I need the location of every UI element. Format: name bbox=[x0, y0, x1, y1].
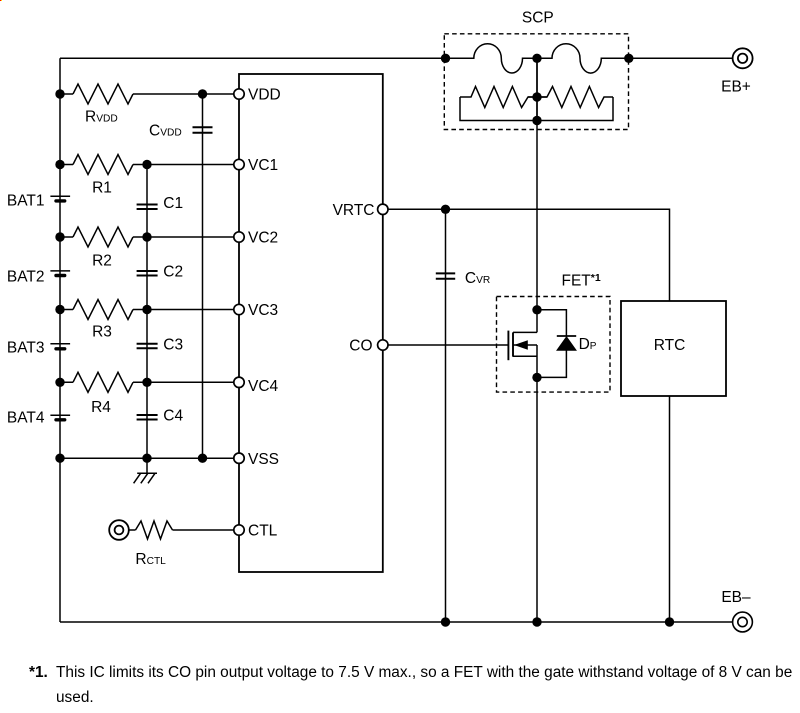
svg-text:CTL: CTL bbox=[248, 523, 278, 540]
wire CVDD column bbox=[202, 94, 204, 458]
wire SCP fuse center tap to heater bbox=[536, 58, 538, 120]
wire CVR column from VRTC to EB- rail bbox=[445, 209, 447, 622]
junction node RTC/EB- rail bbox=[665, 617, 674, 626]
wire RCTL to CTL pin bbox=[129, 529, 239, 531]
diode DP symbol bbox=[557, 336, 576, 350]
svg-text:VDD: VDD bbox=[248, 87, 281, 104]
wire VRTC net to RTC block bbox=[383, 209, 670, 301]
ground (chassis) symbol below VSS node bbox=[134, 458, 157, 483]
svg-text:RTC: RTC bbox=[654, 337, 686, 354]
FET dashed enclosure bbox=[497, 297, 611, 393]
svg-text:R2: R2 bbox=[92, 253, 112, 270]
wire EB- bottom rail bbox=[60, 621, 733, 623]
battery BAT4 bbox=[50, 415, 70, 420]
junction node VC4/C4 bbox=[142, 378, 151, 387]
svg-text:RCTL: RCTL bbox=[135, 551, 166, 568]
pin VDD bbox=[234, 89, 244, 99]
wire R3 row to VC3 pin bbox=[60, 309, 239, 311]
svg-text:R4: R4 bbox=[91, 399, 111, 416]
terminal for CTL input (double circle) bbox=[109, 520, 129, 540]
transistor Q1 (FET) channel bar bbox=[512, 332, 514, 356]
svg-text:VRTC: VRTC bbox=[333, 202, 375, 219]
resistor R3 bbox=[73, 300, 133, 320]
svg-text:C1: C1 bbox=[163, 195, 183, 212]
junction node RVDD/left bus bbox=[55, 89, 64, 98]
capacitor CVR bbox=[436, 273, 455, 278]
wire CO pin to FET gate bbox=[383, 344, 509, 346]
wire R1 row to VC1 pin bbox=[60, 164, 239, 166]
resistor R4 bbox=[73, 372, 133, 392]
svg-text:EB–: EB– bbox=[721, 589, 751, 606]
svg-text:C3: C3 bbox=[163, 336, 183, 353]
svg-text:This IC limits its CO pin outp: This IC limits its CO pin output voltage… bbox=[56, 664, 792, 681]
terminal EB+ (double circle) bbox=[733, 48, 753, 68]
junction node CVDD bottom bbox=[198, 454, 207, 463]
pin CO bbox=[378, 340, 388, 350]
junction node SCP left bbox=[441, 54, 450, 63]
junction node VSS/ground bbox=[142, 454, 151, 463]
wire top bus from battery stack to SCP bbox=[60, 57, 446, 59]
wire VSS row bbox=[60, 457, 239, 459]
resistor R1 bbox=[73, 155, 133, 175]
capacitor C2 bbox=[137, 271, 158, 276]
svg-text:CVR: CVR bbox=[465, 270, 490, 287]
pin VC4 bbox=[234, 377, 244, 387]
junction node FET drain bbox=[532, 305, 541, 314]
SCP dashed enclosure bbox=[444, 34, 628, 130]
wire left battery bus (BAT1-BAT4 string, down to EB- rail) bbox=[59, 58, 61, 622]
transistor Q1 (FET) body rail with arrow bbox=[513, 340, 537, 349]
junction node FET/EB- rail bbox=[532, 617, 541, 626]
IC block U1 (battery protection IC) bbox=[239, 74, 383, 572]
transistor Q1 (FET) drain rail bbox=[513, 331, 537, 333]
svg-text:BAT1: BAT1 bbox=[7, 192, 45, 209]
svg-text:EB+: EB+ bbox=[721, 78, 751, 95]
svg-text:R1: R1 bbox=[92, 180, 112, 197]
wire RVDD row to VDD pin bbox=[60, 93, 239, 95]
svg-text:BAT2: BAT2 bbox=[7, 268, 45, 285]
svg-text:DP: DP bbox=[579, 336, 597, 353]
junction node VC1/C1 bbox=[142, 160, 151, 169]
junction node CVR/EB- rail bbox=[441, 617, 450, 626]
svg-text:BAT4: BAT4 bbox=[7, 410, 45, 427]
junction node R4/left bus bbox=[55, 378, 64, 387]
junction node VSS/left bus bbox=[55, 454, 64, 463]
pin VC3 bbox=[234, 304, 244, 314]
svg-text:FET*1: FET*1 bbox=[562, 272, 601, 290]
transistor Q1 (FET) gate bar bbox=[507, 331, 509, 361]
pin VC1 bbox=[234, 159, 244, 169]
capacitor C3 bbox=[137, 344, 158, 349]
heater resistor of SCP bbox=[460, 87, 613, 121]
svg-text:VC1: VC1 bbox=[248, 157, 278, 174]
wire SCP center tap down through FET drain bbox=[536, 58, 538, 332]
svg-text:SCP: SCP bbox=[522, 9, 554, 26]
svg-text:C2: C2 bbox=[163, 264, 183, 281]
svg-text:R3: R3 bbox=[92, 324, 112, 341]
junction node R3/left bus bbox=[55, 305, 64, 314]
terminal EB- (double circle) bbox=[733, 612, 753, 632]
junction node SCP right bbox=[624, 54, 633, 63]
wire R2 row to VC2 pin bbox=[60, 236, 239, 238]
svg-text:VC4: VC4 bbox=[248, 378, 279, 395]
resistor R2 bbox=[73, 227, 133, 247]
pin CTL bbox=[234, 525, 244, 535]
svg-text:used.: used. bbox=[56, 689, 94, 706]
junction node CVDD top bbox=[198, 89, 207, 98]
battery BAT2 bbox=[50, 271, 70, 276]
artifact yellow pixel top-left bbox=[1, 0, 2, 1]
junction node SCP center bbox=[532, 54, 541, 63]
junction node heater center bbox=[532, 92, 541, 101]
svg-text:VC3: VC3 bbox=[248, 302, 278, 319]
capacitor C1 bbox=[137, 205, 158, 210]
svg-text:VSS: VSS bbox=[248, 451, 279, 468]
svg-text:*1.: *1. bbox=[29, 664, 48, 681]
svg-text:BAT3: BAT3 bbox=[7, 340, 45, 357]
RTC block bbox=[621, 301, 726, 396]
junction node VC2/C2 bbox=[142, 232, 151, 241]
resistor RCTL bbox=[136, 521, 173, 539]
wire C1-C4 filter column bbox=[146, 165, 148, 459]
capacitor CVDD bbox=[193, 127, 213, 132]
capacitor C4 bbox=[137, 415, 158, 420]
pin VRTC bbox=[378, 204, 388, 214]
wire FET source down to EB- rail bbox=[536, 345, 538, 622]
svg-text:CO: CO bbox=[349, 338, 372, 355]
junction node FET source bbox=[532, 373, 541, 382]
svg-text:CVDD: CVDD bbox=[149, 123, 182, 140]
fuse elements of SCP (double thermal fuse) bbox=[446, 44, 629, 73]
junction node heater bottom bbox=[532, 116, 541, 125]
artifact red pixel top-left bbox=[0, 0, 1, 1]
wire R4 row to VC4 pin bbox=[60, 381, 239, 383]
svg-text:C4: C4 bbox=[163, 408, 183, 425]
battery BAT3 bbox=[50, 344, 70, 349]
pin VC2 bbox=[234, 232, 244, 242]
diode DP branch wires bbox=[537, 310, 566, 378]
transistor Q1 (FET) source rail bbox=[513, 355, 537, 357]
battery BAT1 bbox=[50, 196, 70, 201]
wire SCP output to EB+ terminal bbox=[629, 57, 733, 59]
svg-text:VC2: VC2 bbox=[248, 230, 278, 247]
svg-text:RVDD: RVDD bbox=[85, 108, 118, 125]
junction node VRTC/CVR bbox=[441, 205, 450, 214]
junction node VC3/C3 bbox=[142, 305, 151, 314]
pin VSS bbox=[234, 453, 244, 463]
junction node R2/left bus bbox=[55, 232, 64, 241]
junction node R1/left bus bbox=[55, 160, 64, 169]
wire RTC block to EB- rail bbox=[669, 396, 671, 622]
resistor RVDD bbox=[73, 84, 133, 104]
